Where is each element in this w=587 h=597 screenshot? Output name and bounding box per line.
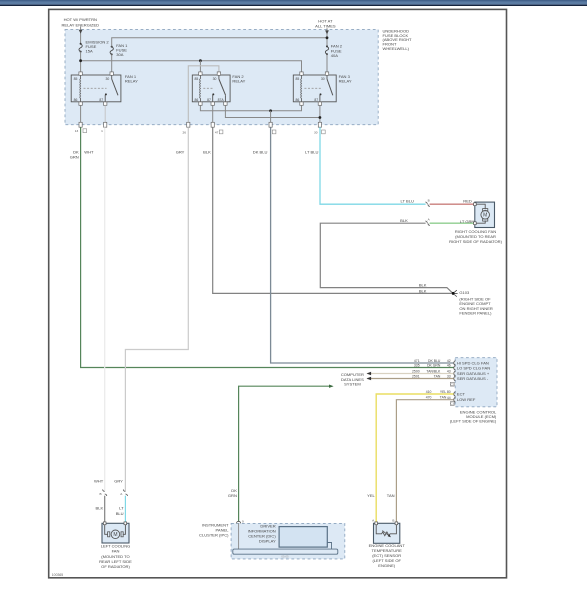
wire feed left (into block)	[79, 27, 83, 44]
svg-text:LOW REF: LOW REF	[457, 397, 476, 402]
junction dot bus A mid	[199, 59, 202, 62]
wire label LT GRN	[460, 219, 475, 224]
left fan pins	[103, 522, 126, 525]
wire feed right (into block)	[325, 28, 329, 46]
ECT sensor box	[374, 523, 400, 543]
wire BLK relay2 87 to ground G103	[213, 127, 452, 293]
relay K3 switch	[320, 75, 333, 102]
wire GRY relay2 30 to connector	[125, 127, 188, 491]
ECM internal labels	[457, 361, 490, 403]
svg-text:30: 30	[314, 131, 318, 135]
svg-text:05-05: 05-05	[281, 555, 289, 559]
wire relay2 87 to block edge	[212, 105, 214, 122]
right fan label	[449, 229, 502, 244]
svg-text:9: 9	[242, 520, 244, 524]
IPC internal wire	[238, 523, 240, 549]
relay K2 FAN 2 RELAY box	[192, 75, 230, 102]
left fan motor symbol	[105, 525, 126, 539]
svg-text:C2: C2	[451, 382, 455, 386]
page frame	[49, 9, 507, 577]
svg-text:B: B	[392, 518, 394, 522]
ECM label	[450, 409, 497, 423]
svg-text:GRY: GRY	[114, 478, 123, 483]
svg-text:(LEFT SIDE OF ENGINE): (LEFT SIDE OF ENGINE)	[450, 419, 497, 424]
wire label GRY (lower)	[114, 478, 123, 483]
junction dot lt blu net	[319, 116, 322, 119]
svg-text:100365: 100365	[52, 573, 63, 577]
left fan label	[99, 544, 132, 569]
relay pin squares top	[79, 72, 329, 75]
svg-text:BLU: BLU	[116, 511, 124, 516]
ECM pin numbers	[447, 359, 455, 406]
svg-text:TAN: TAN	[440, 396, 447, 400]
ECT sensor label	[369, 543, 406, 568]
relay K1 label	[125, 74, 138, 83]
fuse FAN 2 40A	[325, 44, 342, 58]
ECT sensor pins	[372, 518, 398, 524]
wire BLK connector to left fan	[104, 496, 106, 524]
svg-text:RIGHT SIDE OF RADIATOR): RIGHT SIDE OF RADIATOR)	[449, 239, 502, 244]
svg-text:FENDER PANEL): FENDER PANEL)	[459, 311, 492, 316]
svg-text:RELAY: RELAY	[339, 78, 352, 83]
right fan motor symbol	[475, 204, 490, 223]
svg-text:TAN: TAN	[387, 493, 395, 498]
svg-text:M: M	[483, 213, 487, 219]
svg-text:CLUSTER (IPC): CLUSTER (IPC)	[199, 532, 229, 537]
wire relay2 87A to relay3 87 net	[225, 105, 320, 117]
wire DK BLU relay coils to ECM pin 42	[271, 127, 454, 363]
relay K3 label	[339, 74, 352, 83]
svg-text:SER DATA BUS -: SER DATA BUS -	[457, 376, 489, 381]
wire fuse3 to relay3 pin 30	[326, 54, 328, 72]
svg-text:DISPLAY: DISPLAY	[259, 539, 276, 544]
ECM pin bumps	[454, 361, 456, 402]
svg-text:26: 26	[183, 131, 187, 135]
relay K1 coil	[79, 75, 82, 102]
svg-text:BLK: BLK	[96, 506, 104, 511]
wire relay1 87 to block edge	[104, 105, 106, 122]
wire fuse2 top bus	[112, 38, 327, 47]
relay K3 actuation dashed link	[304, 87, 321, 89]
svg-text:86: 86	[296, 98, 300, 102]
relay pin squares bottom	[79, 102, 322, 105]
wire color labels below block	[70, 150, 319, 160]
svg-text:30: 30	[213, 77, 217, 81]
wire bus A to relay2 pin 85	[199, 61, 201, 72]
svg-text:DK GRN: DK GRN	[427, 363, 441, 367]
relay K3 FAN 3 RELAY box	[293, 75, 336, 102]
wire LT BLU relay3 87 to connector	[320, 127, 426, 204]
wire TAN/BLK serial data bus plus	[367, 372, 454, 375]
svg-text:LT GRN: LT GRN	[460, 219, 475, 224]
ECM wire circuit labels	[412, 359, 447, 400]
svg-text:85: 85	[195, 77, 199, 81]
svg-text:471: 471	[414, 359, 420, 363]
toolbar	[0, 0, 587, 6]
svg-text:BLK: BLK	[400, 218, 408, 223]
svg-text:GRN: GRN	[70, 155, 79, 160]
label underhood fuse block location	[383, 28, 413, 51]
IPC pin bump	[237, 520, 245, 524]
wire label BLK (upper ground leg)	[419, 283, 427, 288]
svg-text:87: 87	[314, 98, 318, 102]
fuse block bottom pin squares	[79, 122, 322, 127]
relay K1 actuation dashed link	[84, 87, 107, 89]
svg-text:RELAY ENERGIZED: RELAY ENERGIZED	[61, 22, 99, 27]
svg-text:DK BLU: DK BLU	[428, 359, 441, 363]
svg-text:ENGINE): ENGINE)	[378, 563, 396, 568]
footer figure number	[52, 573, 63, 577]
svg-text:86: 86	[74, 98, 78, 102]
wire label TAN	[387, 493, 395, 498]
block pin labels	[75, 129, 325, 135]
wire label WHT (lower)	[94, 478, 104, 483]
svg-text:30: 30	[321, 77, 325, 81]
svg-text:LO SPD CLG FAN: LO SPD CLG FAN	[457, 365, 490, 370]
junction dot bus B	[326, 36, 329, 39]
relay K3 coil	[300, 75, 303, 102]
IPC internal strip	[233, 549, 338, 559]
DIC display box	[279, 527, 327, 548]
wire TAN low reference	[396, 400, 453, 524]
wire DK GRN fan1 relay coil to ECM pin 46	[81, 127, 454, 367]
svg-text:G103: G103	[459, 290, 470, 295]
svg-text:85: 85	[296, 77, 300, 81]
wire DK GRN IPC serial data	[239, 385, 334, 522]
wire RED connector to right fan	[430, 203, 475, 205]
svg-text:46: 46	[447, 364, 451, 368]
relay K1 FAN 1 RELAY box	[71, 75, 121, 102]
svg-text:1: 1	[101, 129, 103, 133]
svg-text:RELAY: RELAY	[232, 78, 245, 83]
svg-text:TAN/BLK: TAN/BLK	[426, 369, 441, 373]
svg-text:335: 335	[414, 363, 420, 367]
label hot at all times	[315, 19, 336, 29]
IPC box	[231, 523, 345, 559]
svg-text:47: 47	[215, 131, 219, 135]
inline connector right fan A	[425, 217, 430, 225]
svg-text:BLK: BLK	[203, 150, 211, 155]
ground G103 label	[459, 290, 493, 315]
ECM box	[455, 358, 497, 407]
svg-text:TAN: TAN	[434, 374, 441, 378]
wire label RED	[463, 199, 472, 204]
svg-text:87A: 87A	[218, 98, 225, 102]
fuse EMISSION 2 15A	[79, 39, 109, 53]
inline connector left fan A (GRY/LT BLU)	[120, 489, 127, 496]
gry staple wire to relay2 pin 30	[188, 66, 219, 125]
svg-text:RELAY: RELAY	[125, 78, 138, 83]
wire label LT BLU (right fan row)	[401, 199, 414, 204]
svg-text:ECT: ECT	[457, 392, 466, 397]
computer data lines label	[341, 372, 364, 386]
DIC connector stub	[327, 543, 331, 550]
svg-text:M: M	[113, 532, 117, 538]
wire fuse1 to bus	[80, 52, 82, 72]
svg-text:30: 30	[106, 77, 110, 81]
svg-text:C1: C1	[451, 402, 455, 406]
relay K1 switch	[105, 75, 118, 102]
wire YEL ECT signal	[376, 394, 453, 523]
inline connector right fan B	[425, 198, 430, 206]
svg-text:470: 470	[426, 396, 432, 400]
svg-text:42: 42	[447, 359, 451, 363]
svg-text:SYSTEM: SYSTEM	[344, 382, 361, 387]
ground G103	[452, 290, 458, 296]
label hot w/ pwrtrn relay energized	[61, 17, 99, 27]
svg-text:LT BLU: LT BLU	[305, 150, 318, 155]
wire label BLK (right fan row)	[400, 218, 408, 223]
right cooling fan M2 box	[475, 202, 495, 227]
right fan pin marks	[474, 203, 477, 225]
svg-text:87: 87	[99, 98, 103, 102]
relay K2 actuation dashed link	[203, 87, 213, 89]
svg-text:LT BLU: LT BLU	[401, 199, 414, 204]
wire label BLK (lower ground leg)	[419, 288, 427, 293]
junction dot bus A left	[79, 59, 82, 62]
relay K2 switch	[212, 75, 225, 102]
left cooling fan M1 box	[102, 523, 129, 543]
svg-text:30A: 30A	[116, 52, 124, 57]
relay K2 label	[232, 74, 245, 83]
svg-text:B: B	[100, 492, 102, 496]
svg-text:86: 86	[195, 98, 199, 102]
svg-text:ALL TIMES: ALL TIMES	[315, 24, 336, 29]
svg-text:BLK: BLK	[419, 283, 427, 288]
relay K2 coil	[199, 75, 202, 102]
underhood fuse block box	[65, 30, 378, 125]
fuse FAN 1 30A	[110, 43, 128, 57]
DIC label	[248, 524, 277, 544]
svg-text:2500: 2500	[412, 369, 420, 373]
IPC label	[199, 522, 229, 537]
inline connector left fan B (WHT/BLK)	[100, 489, 107, 496]
svg-text:13: 13	[75, 129, 79, 133]
wire label YEL	[367, 493, 375, 498]
ECT thermistor symbol	[376, 525, 396, 538]
wire relay2 86 to relay3 86 net	[200, 105, 301, 111]
svg-text:GRN: GRN	[228, 493, 237, 498]
svg-text:DK BLU: DK BLU	[253, 150, 268, 155]
wire label LT BLU (left fan)	[116, 506, 124, 516]
svg-text:85: 85	[74, 77, 78, 81]
wire label BLK (left fan)	[96, 506, 104, 511]
wire label DK GRN (IPC)	[228, 488, 237, 498]
svg-text:B: B	[428, 198, 430, 202]
junction dot dk blu net	[269, 109, 272, 112]
svg-text:RED: RED	[463, 199, 472, 204]
svg-text:WHT: WHT	[84, 150, 94, 155]
wire relay1 86 to block edge	[80, 105, 82, 122]
svg-text:2501: 2501	[412, 374, 420, 378]
wire LT GRN right fan to connector	[430, 222, 475, 224]
coil bus A	[81, 61, 302, 72]
svg-text:YEL: YEL	[367, 493, 375, 498]
svg-text:15A: 15A	[86, 49, 94, 54]
wire LT BLU connector to left fan	[124, 496, 126, 524]
wire WHT relay1 87 to connector	[104, 127, 106, 491]
svg-text:WHT: WHT	[94, 478, 104, 483]
wire TAN serial data bus minus	[367, 377, 454, 380]
svg-text:GRY: GRY	[176, 150, 185, 155]
svg-text:BLK: BLK	[419, 288, 427, 293]
svg-text:87: 87	[207, 98, 211, 102]
svg-text:OF RADIATOR): OF RADIATOR)	[101, 564, 130, 569]
wire dk blu drop to block edge	[270, 111, 272, 123]
wire fuse2 to relay1 pin 30	[111, 54, 113, 72]
wire BLK right fan return to ground G103	[320, 223, 452, 293]
wire relay3 87 to block edge	[319, 105, 321, 122]
svg-text:WHEELWELL): WHEELWELL)	[383, 46, 410, 51]
svg-text:40A: 40A	[331, 53, 339, 58]
